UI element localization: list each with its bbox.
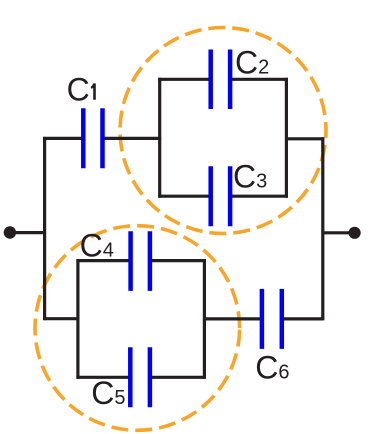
svg-text:C2: C2 [235,45,269,81]
svg-text:C6: C6 [255,350,289,386]
svg-text:C3: C3 [233,158,267,194]
svg-text:C: C [67,72,90,108]
svg-text:C4: C4 [80,228,114,264]
svg-text:C5: C5 [91,375,125,411]
